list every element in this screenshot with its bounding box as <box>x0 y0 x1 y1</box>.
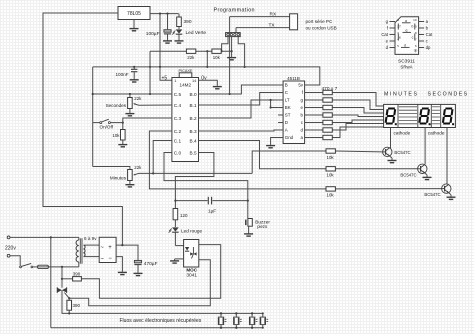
svg-text:10: 10 <box>413 18 417 22</box>
svg-text:BC547C: BC547C <box>400 173 416 178</box>
ground (4511) <box>266 145 275 148</box>
svg-text:100µF: 100µF <box>146 31 160 37</box>
capacitor C4 470µF <box>134 260 157 272</box>
svg-text:Fluos avec électroniques récup: Fluos avec électroniques récupérées <box>120 318 202 324</box>
wire phase drop to fluo rail <box>50 237 52 327</box>
svg-text:10k: 10k <box>213 55 221 60</box>
ground (C4) <box>134 272 143 275</box>
wire fuse to transformer <box>49 262 79 268</box>
wire +5 left rail <box>92 67 94 167</box>
digit 8 minutes <box>386 109 397 126</box>
terminal 220v neutral <box>7 254 10 257</box>
regulator U4 78L05 <box>118 7 150 20</box>
wire MOC pin4 loop to gate <box>68 260 210 306</box>
svg-text:dp: dp <box>414 48 418 52</box>
IC U2 4511B <box>278 76 310 144</box>
svg-text:f: f <box>400 25 401 29</box>
ground (bridge) <box>118 271 127 274</box>
wire MT1 to fluo rail <box>62 290 263 314</box>
svg-text:On/Off: On/Off <box>100 125 114 130</box>
svg-text:4511B: 4511B <box>287 76 300 81</box>
svg-text:B.3: B.3 <box>190 129 197 134</box>
svg-text:C.5: C.5 <box>174 92 182 97</box>
svg-text:B.4: B.4 <box>190 138 197 143</box>
svg-text:BC547C: BC547C <box>424 192 440 197</box>
svg-text:b: b <box>426 26 429 31</box>
svg-text:ST: ST <box>285 113 291 118</box>
svg-text:390: 390 <box>73 272 81 277</box>
wire MOC pin2 ground <box>175 258 184 260</box>
wire +5V bus <box>93 66 320 85</box>
svg-text:d: d <box>404 43 406 47</box>
ground (Q1) <box>388 156 397 163</box>
label MOC 3041 <box>186 267 197 278</box>
svg-text:SRwA: SRwA <box>400 65 412 70</box>
label MINUTES <box>384 91 419 97</box>
wire C.1 to wiper rail <box>153 141 172 174</box>
wire +5V drop to bus <box>159 14 161 67</box>
svg-text:port série PC: port série PC <box>306 19 333 24</box>
wire bridge - to ground <box>116 257 122 272</box>
svg-text:1: 1 <box>174 79 176 83</box>
svg-text:cathode: cathode <box>428 130 445 135</box>
resistor R4 10k <box>112 123 125 140</box>
svg-text:MOC: MOC <box>186 267 197 272</box>
wire secondary bottom <box>84 256 100 258</box>
svg-text:−: − <box>108 256 112 262</box>
wire C.2 to Q3 base <box>149 131 326 189</box>
wire B.0 to 4511 B <box>199 85 279 94</box>
wire S2 to C.3 <box>110 118 171 124</box>
wire J1 pin2 to ground <box>231 37 233 57</box>
wire B.1 to 4511 C <box>199 93 279 106</box>
wire bridge + to C4 <box>116 244 138 260</box>
svg-text:+5: +5 <box>162 75 168 81</box>
svg-text:10k: 10k <box>327 193 335 198</box>
capacitor C1 100µF <box>146 14 171 40</box>
digit 8 seconds units <box>443 109 454 126</box>
svg-text:B: B <box>285 83 288 88</box>
wire rail left bend to C.5 row <box>149 51 151 95</box>
svg-text:22k: 22k <box>187 55 195 60</box>
wire +5V output of 78L05 <box>150 13 179 15</box>
svg-text:100nF: 100nF <box>115 72 128 77</box>
wire cathode1 to Q1 <box>390 128 392 149</box>
svg-text:B.0: B.0 <box>190 92 197 97</box>
ground (pin14) <box>213 85 222 89</box>
svg-text:e: e <box>399 36 401 40</box>
wire B.4 to Q2 base <box>199 141 327 169</box>
wire TX <box>236 23 290 29</box>
wire +5 to pin1 <box>160 67 172 81</box>
label cathode 1 <box>394 130 411 135</box>
wires RN1 to display segments <box>332 93 383 138</box>
svg-text:Cat: Cat <box>426 32 433 37</box>
transistor Q2 BC547C <box>400 164 427 178</box>
ground (D1) <box>175 34 184 43</box>
wire D2 to MOC <box>175 232 183 245</box>
wire MT2 drop <box>61 267 63 288</box>
IC U1 PICAXE 14M2 <box>172 69 199 162</box>
resistor R7 10k <box>326 187 335 198</box>
wire P2 wiper rail <box>139 172 253 174</box>
svg-text:g: g <box>406 28 408 32</box>
svg-text:A: A <box>285 128 288 133</box>
resistor R10 390 <box>67 298 81 313</box>
svg-text:LT: LT <box>285 98 290 103</box>
wire B.2 to 4511 LT <box>199 100 279 118</box>
ground (78L05) <box>130 20 139 31</box>
ground (P1) <box>125 109 134 116</box>
svg-text:10k: 10k <box>112 133 120 138</box>
capacitor C2 100nF <box>115 67 137 79</box>
svg-text:5v: 5v <box>298 83 303 88</box>
svg-text:14: 14 <box>192 79 196 83</box>
wire R6 to Q2 <box>335 168 417 170</box>
ground (MOC) <box>170 259 179 263</box>
wire B.3 to 4511 A <box>199 130 279 131</box>
ground (buzzer) <box>244 226 253 236</box>
label cathode 2 <box>428 130 445 135</box>
svg-text:+: + <box>108 245 112 251</box>
svg-text:120: 120 <box>180 213 188 218</box>
resistor R8 120 <box>173 209 188 220</box>
svg-text:MINUTES: MINUTES <box>384 91 419 97</box>
wire serial divider rail <box>150 50 232 52</box>
svg-text:c: c <box>426 39 429 44</box>
transistor Q1 BC547C <box>383 147 411 156</box>
label Programmation <box>214 8 255 14</box>
wire serial-in to B.0 <box>229 17 231 96</box>
label 470 x 7 <box>322 86 338 92</box>
wire regulator input from bridge + <box>43 13 122 245</box>
svg-text:a: a <box>405 19 407 23</box>
triac TR2 <box>57 287 69 298</box>
svg-text:6 à 9v: 6 à 9v <box>84 236 97 241</box>
resistor array RN1 470x7 <box>310 90 333 139</box>
svg-text:C: C <box>285 90 288 95</box>
svg-text:D: D <box>285 120 288 125</box>
wire C.5 row <box>92 93 172 95</box>
label SECONDES <box>428 91 469 97</box>
wire cathode2 to Q2 <box>424 128 426 165</box>
svg-text:10k: 10k <box>327 173 335 178</box>
svg-text:BK: BK <box>285 105 291 110</box>
svg-text:BC547C: BC547C <box>394 150 410 155</box>
svg-text:C.1: C.1 <box>174 138 182 143</box>
transformer TR1 <box>76 237 85 263</box>
wire divider to bus <box>206 51 208 68</box>
label Fluos avec électroniques récupérées <box>120 318 202 324</box>
wire 1µF branch <box>175 200 247 202</box>
wire R7 to Q3 <box>335 188 441 190</box>
svg-text:B.1: B.1 <box>190 103 197 108</box>
fuse F1 <box>33 265 49 268</box>
svg-text:3041: 3041 <box>186 273 197 279</box>
svg-text:TX: TX <box>269 23 276 29</box>
svg-text:Cat: Cat <box>381 32 388 37</box>
wire R5 to Q1 <box>335 150 382 153</box>
fluorescent units x4 <box>218 312 268 328</box>
resistor R3 10k <box>212 49 221 60</box>
svg-text:B.5: B.5 <box>190 150 197 155</box>
wire C.0 chain <box>164 153 249 219</box>
display DISP1-3 7-segment block <box>384 104 456 127</box>
wire neutral to switch <box>10 256 20 266</box>
svg-text:Gnd: Gnd <box>285 135 294 140</box>
svg-text:22k: 22k <box>134 96 142 101</box>
potentiometer P2 22k Minutes <box>110 165 142 181</box>
svg-text:f: f <box>387 26 389 31</box>
svg-text:Led rouge: Led rouge <box>181 228 203 233</box>
resistor R5 10k <box>326 149 335 160</box>
svg-text:C.3: C.3 <box>174 116 182 121</box>
svg-text:C.4: C.4 <box>174 103 182 108</box>
ground (C1) <box>163 40 172 44</box>
svg-text:390: 390 <box>73 303 81 308</box>
ground (J1) <box>227 57 236 60</box>
svg-text:220v: 220v <box>5 245 16 251</box>
wire to R9 <box>62 278 73 280</box>
wire to Q1 base <box>252 151 326 173</box>
svg-text:14M2: 14M2 <box>180 83 192 88</box>
ground (C2) <box>130 79 139 82</box>
svg-text:b: b <box>412 25 414 29</box>
bridge rectifier BR1 <box>99 237 116 262</box>
terminal 220v phase <box>7 236 10 239</box>
ground (R4) <box>118 140 127 147</box>
wire TX drop <box>235 28 237 33</box>
wire RX <box>230 12 290 18</box>
wire cathode3 to Q3 <box>446 128 448 185</box>
ground (P2) <box>125 181 134 187</box>
ground (Q3) <box>447 193 456 200</box>
connector J1 programmation <box>226 33 241 37</box>
svg-text:e: e <box>386 39 389 44</box>
svg-text:C.0: C.0 <box>174 150 182 155</box>
label 0v <box>201 76 207 82</box>
svg-text:390: 390 <box>184 19 192 25</box>
wire J1 pin1 to divider <box>221 37 229 53</box>
svg-text:1µF: 1µF <box>208 209 216 214</box>
resistor R9 390 <box>73 272 82 281</box>
svg-text:470µF: 470µF <box>144 261 158 267</box>
wire B.5 chain <box>174 153 214 209</box>
label SC3911 / SRwA <box>398 58 415 69</box>
LED D2 Led rouge <box>169 220 203 234</box>
ground (Q2) <box>423 173 432 180</box>
wire MOC pin6 loop to 390/MT2 <box>81 245 220 299</box>
wire J1 pin4 to +5 bus <box>238 37 246 68</box>
svg-text:Secondes: Secondes <box>106 103 127 108</box>
svg-text:B.2: B.2 <box>190 116 197 121</box>
display pinout ref SC3911 <box>381 17 433 55</box>
potentiometer P1 22k Secondes <box>106 94 143 109</box>
connector J2 port série <box>290 14 298 30</box>
svg-text:Programmation: Programmation <box>214 8 255 14</box>
wire secondary top <box>84 244 100 246</box>
label port série PC / ou cordon USB <box>306 19 337 31</box>
resistor R6 10k <box>326 167 335 178</box>
svg-text:d: d <box>386 45 389 50</box>
buzzer BZ1 piezo <box>246 219 271 230</box>
wire P1 wiper to C.4 <box>139 104 172 106</box>
svg-text:C.2: C.2 <box>174 129 182 134</box>
label 220v <box>5 245 16 251</box>
wire phase to transformer <box>10 236 79 238</box>
svg-text:g: g <box>386 19 389 24</box>
transistor Q3 BC547C <box>424 184 451 197</box>
svg-text:PICAXE: PICAXE <box>179 69 193 73</box>
wire +5 to P2 <box>93 167 130 170</box>
svg-text:c: c <box>412 36 414 40</box>
capacitor C3 1µF <box>208 197 216 214</box>
switch S2 On/Off <box>93 119 114 129</box>
svg-text:ou cordon USB: ou cordon USB <box>306 26 337 31</box>
switch S1 mains <box>20 263 33 267</box>
wire 4511 Gnd <box>271 138 284 145</box>
digit 8 seconds tens <box>419 109 430 126</box>
label 6 à 9v <box>84 236 97 241</box>
svg-text:SECONDES: SECONDES <box>428 91 469 97</box>
LED D1 Led Verte <box>172 27 206 36</box>
svg-text:SC3911: SC3911 <box>398 58 415 64</box>
wire fluo bottom rail <box>51 327 263 329</box>
svg-text:10k: 10k <box>327 155 335 160</box>
svg-text:78L05: 78L05 <box>127 11 141 17</box>
svg-text:Minutes: Minutes <box>110 175 127 180</box>
svg-text:cathode: cathode <box>394 130 411 135</box>
svg-text:dp: dp <box>426 45 431 50</box>
optocoupler U3 MOC3041 <box>184 240 199 268</box>
svg-text:a: a <box>426 19 429 24</box>
svg-text:piezo: piezo <box>257 224 268 229</box>
resistor R2 22k <box>186 49 195 60</box>
svg-text:Led Verte: Led Verte <box>186 30 207 36</box>
wire pin14 to ground <box>199 80 218 85</box>
svg-text:RX: RX <box>270 12 277 18</box>
svg-text:22k: 22k <box>134 165 142 170</box>
wire LT-BK tie <box>270 99 279 109</box>
resistor R1 390 <box>177 14 192 27</box>
